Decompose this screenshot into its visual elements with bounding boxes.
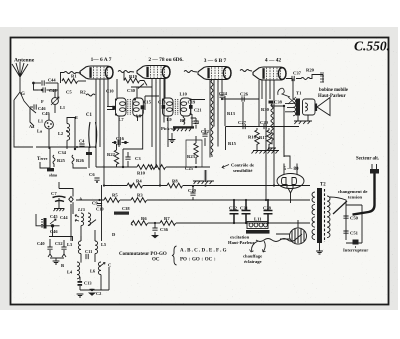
svg-text:B: B <box>61 263 64 268</box>
interrupteur switch <box>353 240 359 245</box>
svg-text:L9: L9 <box>167 117 173 122</box>
T2 core <box>317 188 322 243</box>
svg-text:C36: C36 <box>160 227 169 232</box>
capacitor C38 <box>269 101 274 104</box>
wire C38 to rectifier <box>272 101 290 168</box>
svg-text:changement de: changement de <box>338 189 367 194</box>
svg-text:tension: tension <box>348 195 362 200</box>
ground hatch mid <box>193 181 214 184</box>
IF transformer 1 coil L7 <box>116 98 127 116</box>
svg-text:OC: OC <box>152 258 160 263</box>
svg-text:éclairage: éclairage <box>244 259 262 264</box>
svg-text:R23: R23 <box>187 154 196 159</box>
svg-text:C48: C48 <box>49 88 57 93</box>
bus y147 <box>36 146 96 148</box>
svg-text:F: F <box>41 99 44 104</box>
wire rect to T1 <box>285 79 293 112</box>
svg-text:E: E <box>75 115 78 120</box>
rectifier filament <box>287 184 293 193</box>
svg-text:C26: C26 <box>240 92 249 97</box>
capacitor C15 <box>141 105 145 109</box>
svg-text:C10: C10 <box>96 207 104 212</box>
svg-text:Haut-Parleur: Haut-Parleur <box>228 240 255 245</box>
IF transformer 1 coil L8 <box>133 98 144 116</box>
svg-text:Interrupteur: Interrupteur <box>343 248 368 253</box>
ground osc <box>53 261 60 264</box>
control box <box>226 127 300 158</box>
trimmer arrow C <box>99 263 105 268</box>
wires IFT2 <box>165 79 205 147</box>
chauffage leads <box>252 241 266 252</box>
wires input section <box>30 90 75 149</box>
mains cable <box>353 174 375 215</box>
junction dots cluster <box>66 130 68 132</box>
grid wire to U1 <box>61 73 65 84</box>
capacitor blob left <box>112 106 116 110</box>
svg-text:R26: R26 <box>76 158 85 163</box>
rectifier tube U5 80 <box>277 174 304 189</box>
svg-text:C20: C20 <box>188 188 197 193</box>
svg-text:1— 6 A 7: 1— 6 A 7 <box>91 57 112 63</box>
resistor block 300 <box>86 152 92 155</box>
junction blob <box>51 224 54 227</box>
svg-text:C13: C13 <box>84 281 92 286</box>
IFT2 core dashes <box>175 99 178 115</box>
svg-text:Secteur alt.: Secteur alt. <box>356 157 379 162</box>
junction dots IFT1 <box>115 98 117 100</box>
svg-text:T1: T1 <box>296 91 302 96</box>
switch contact diamond <box>69 197 73 203</box>
T1 ground hatch <box>294 121 312 124</box>
right loop wire <box>361 205 363 243</box>
svg-text:A . B . C . D . E . F . G: A . B . C . D . E . F . G <box>180 249 227 254</box>
svg-text:C4: C4 <box>79 139 85 144</box>
wire osc verticals <box>71 185 102 241</box>
svg-text:R20: R20 <box>306 68 315 73</box>
trimmer hatch bar <box>44 218 47 229</box>
twisted pair <box>256 234 302 242</box>
wire trimmer <box>36 214 73 241</box>
tube U3 6B7 <box>198 67 231 80</box>
svg-text:L10: L10 <box>180 92 188 97</box>
IF transformer 2 coil L10 <box>180 98 191 116</box>
heater winding tube <box>290 228 307 244</box>
svg-text:L1: L1 <box>60 105 65 110</box>
capacitor C23 symbol <box>193 121 198 123</box>
svg-text:4 — 42: 4 — 42 <box>265 58 281 64</box>
svg-text:C50: C50 <box>350 216 359 221</box>
svg-text:3 — 6 B 7: 3 — 6 B 7 <box>204 58 227 64</box>
T1 core <box>296 99 300 116</box>
svg-text:2 — 78 ou 6D6.: 2 — 78 ou 6D6. <box>148 57 184 63</box>
svg-text:C10: C10 <box>106 89 114 94</box>
svg-text:PO ↕ GO ↕ OC ↕: PO ↕ GO ↕ OC ↕ <box>180 258 216 263</box>
svg-text:C.550.: C.550. <box>354 39 390 54</box>
hatch bar under IFT2 <box>173 126 194 128</box>
schematic paper <box>11 38 388 304</box>
svg-text:L4: L4 <box>67 270 73 275</box>
wire secondary to C50 <box>330 197 362 243</box>
trimmer arrow C45 <box>50 219 56 224</box>
svg-text:R15: R15 <box>228 141 237 146</box>
T2 dashes <box>324 189 326 242</box>
svg-text:C1: C1 <box>86 113 92 118</box>
svg-text:R5: R5 <box>112 193 118 198</box>
svg-text:C6: C6 <box>89 172 95 177</box>
svg-text:L15: L15 <box>77 207 86 212</box>
earth wire <box>40 147 50 168</box>
tube U4 42 <box>253 67 286 80</box>
speaker voice bar <box>315 104 318 112</box>
wires osc coils <box>80 230 109 290</box>
svg-text:C30: C30 <box>127 88 136 93</box>
scan grain overlay <box>11 28 398 304</box>
tube U2 pins <box>152 79 164 186</box>
resistor R12 tall <box>211 80 213 157</box>
grid cap wire U1 <box>64 72 81 74</box>
svg-text:L5: L5 <box>101 242 107 247</box>
svg-text:Contrôle de: Contrôle de <box>231 163 254 168</box>
wire loop squiggle <box>278 88 290 97</box>
svg-text:chauffage: chauffage <box>243 254 262 259</box>
svg-text:C9: C9 <box>92 201 98 206</box>
junction dots antenna <box>32 82 35 85</box>
ground osc bottom <box>88 293 96 296</box>
grid cap wire U4 <box>240 70 252 72</box>
node C38 junction <box>283 105 285 107</box>
resistor R9 symbol <box>183 116 185 125</box>
speaker horn <box>317 98 330 116</box>
resistor R14 <box>204 170 207 182</box>
hatch R20 end <box>320 73 324 82</box>
svg-text:R30: R30 <box>261 107 270 112</box>
svg-text:C5: C5 <box>66 90 72 95</box>
bus y186 <box>104 185 127 187</box>
resistor R18 vertical <box>271 104 273 144</box>
output transformer T1 coil <box>293 99 296 116</box>
wire C26 to C27 <box>242 102 244 127</box>
svg-text:R13: R13 <box>227 111 236 116</box>
speaker coil <box>305 103 308 111</box>
svg-text:La: La <box>37 129 43 134</box>
svg-text:L8: L8 <box>136 114 142 119</box>
T2 ground <box>319 243 321 251</box>
svg-text:C7: C7 <box>51 191 57 196</box>
junction dots IFT2 <box>162 98 164 100</box>
svg-text:C19: C19 <box>188 99 196 104</box>
svg-text:T2: T2 <box>320 183 326 188</box>
svg-text:C44: C44 <box>48 78 56 83</box>
svg-text:C46: C46 <box>50 229 58 234</box>
IF transformer 2 coil L9 <box>163 98 174 116</box>
svg-text:Aa: Aa <box>29 124 35 129</box>
svg-text:L3: L3 <box>67 242 73 247</box>
wire crossing X <box>288 97 296 104</box>
svg-text:C44: C44 <box>60 215 68 220</box>
svg-text:Pick-up: Pick-up <box>161 126 177 131</box>
grid cap wire U2 <box>118 71 134 73</box>
tension arrow <box>333 201 347 214</box>
T2 secondary coils <box>327 196 330 238</box>
svg-text:Antenne: Antenne <box>14 58 35 64</box>
svg-text:C21: C21 <box>194 108 202 113</box>
ground var cap <box>54 209 65 212</box>
svg-text:C51: C51 <box>350 231 359 236</box>
svg-text:C3: C3 <box>135 156 141 161</box>
svg-text:R8: R8 <box>172 179 178 184</box>
mains plug <box>372 164 377 169</box>
svg-text:R6: R6 <box>141 216 147 221</box>
earth block <box>47 168 54 171</box>
ground hatch R18 <box>267 148 276 151</box>
T2 primary coils <box>312 192 315 240</box>
svg-text:sensibilité: sensibilité <box>233 168 252 173</box>
antenna symbol <box>12 62 28 92</box>
svg-text:C40: C40 <box>37 241 45 246</box>
svg-text:C: C <box>108 263 111 268</box>
pick-up ground <box>171 133 173 139</box>
padder capacitor C38 <box>114 212 129 215</box>
wires under U1 <box>96 79 108 185</box>
svg-text:bobine mobile: bobine mobile <box>319 88 348 93</box>
bus y223 <box>131 222 133 225</box>
wire y99 <box>222 98 259 100</box>
IFT1 core dashes <box>128 99 131 115</box>
wire antenna caps <box>34 83 59 98</box>
svg-text:R4: R4 <box>136 179 142 184</box>
ground hatch under R16 R17 <box>252 151 280 154</box>
svg-text:C45: C45 <box>50 214 58 219</box>
svg-text:C52: C52 <box>55 241 63 246</box>
svg-text:L1: L1 <box>38 119 43 124</box>
choke L11 <box>247 222 268 229</box>
wire osc <box>59 182 73 214</box>
brace <box>172 246 177 265</box>
svg-text:C2: C2 <box>96 291 101 296</box>
svg-text:R25: R25 <box>57 158 66 163</box>
grid cap wire U3 <box>184 71 197 73</box>
wire IFT1 to U2 <box>131 87 159 110</box>
svg-text:R1: R1 <box>71 74 77 79</box>
speaker frame <box>303 99 316 115</box>
svg-text:C11: C11 <box>85 249 92 254</box>
svg-text:C38: C38 <box>274 100 283 105</box>
svg-text:L11: L11 <box>254 217 262 222</box>
svg-text:R2: R2 <box>80 90 86 95</box>
tube U2 78/6D6 <box>137 66 170 79</box>
band switch circle <box>52 98 59 105</box>
svg-text:L6: L6 <box>90 269 96 274</box>
svg-text:excitation: excitation <box>230 235 250 240</box>
choke core bar <box>246 230 270 234</box>
bus R10 line y169 <box>96 166 137 168</box>
svg-text:Haut-Parleur: Haut-Parleur <box>318 94 347 99</box>
tube U4 pins <box>259 80 274 200</box>
svg-text:Commutateur PO-GO: Commutateur PO-GO <box>119 252 167 257</box>
wires IFT1 <box>107 79 143 167</box>
svg-text:ohms: ohms <box>49 174 58 178</box>
tube U3 pins <box>210 80 222 158</box>
svg-text:R7: R7 <box>164 216 170 221</box>
svg-text:R3: R3 <box>137 193 143 198</box>
border frame <box>11 38 389 305</box>
ground C36 <box>151 235 159 238</box>
svg-text:R10: R10 <box>137 171 146 176</box>
svg-text:C37: C37 <box>293 71 302 76</box>
svg-text:C34: C34 <box>58 150 67 155</box>
switch wafer <box>45 120 54 129</box>
antenna switch wires <box>14 92 33 147</box>
tube U1 6A7 <box>80 66 113 79</box>
svg-text:C38: C38 <box>122 206 130 211</box>
svg-text:L2: L2 <box>58 131 63 136</box>
